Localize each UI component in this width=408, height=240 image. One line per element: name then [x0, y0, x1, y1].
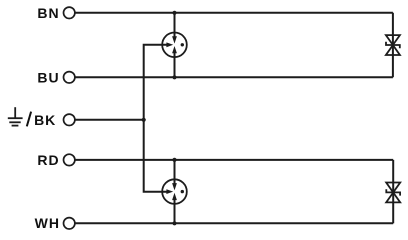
- wire sensor B1 vertical bottom (BU to B1): [174, 52, 176, 78]
- wire sensor B1 vertical top (BN to B1): [174, 13, 176, 38]
- junction on BK branch: [142, 118, 146, 122]
- wire sensor B2 vertical top (RD to B2): [174, 160, 176, 185]
- sensor B2 top arrowhead: [172, 183, 177, 190]
- wire right vertical bottom (RD to WH): [392, 160, 394, 223]
- sensor B2 bottom arrowhead: [172, 193, 177, 200]
- suppressor diode D2 bottom triangle: [386, 193, 400, 203]
- sensor B1 (circle): [162, 33, 187, 58]
- suppressor diode D1 top triangle: [386, 35, 400, 45]
- suppressor diode D2 zener bar: [386, 189, 400, 195]
- slash separator: [27, 112, 31, 127]
- junction on BN at sensor B1: [172, 11, 176, 15]
- terminal circle RD: [63, 154, 74, 165]
- wire BK horizontal: [75, 119, 144, 121]
- terminal circle BN: [63, 7, 74, 18]
- svg-text:WH: WH: [35, 215, 60, 231]
- wire left branch (B1 left arm, vertical, B2 left arm): [144, 45, 167, 192]
- wire WH horizontal: [75, 222, 393, 224]
- sensor B2 (circle): [162, 179, 187, 204]
- sensor B2 dot: [181, 190, 184, 193]
- junction on WH at sensor B2: [172, 221, 176, 225]
- sensor B1 left arrowhead: [166, 42, 173, 47]
- svg-text:BN: BN: [37, 5, 59, 21]
- wire RD horizontal: [75, 159, 393, 161]
- sensor B1 dot: [181, 43, 184, 46]
- terminal circle BU: [63, 72, 74, 83]
- sensor B1 bottom arrowhead: [172, 46, 177, 53]
- junction on RD at sensor B2: [172, 158, 176, 162]
- svg-text:BK: BK: [34, 112, 56, 128]
- svg-text:RD: RD: [37, 152, 59, 168]
- wire BU horizontal: [75, 76, 393, 78]
- wire right vertical top (BN to BU): [392, 13, 394, 78]
- suppressor diode D2 top triangle: [386, 183, 400, 193]
- sensor B1 top arrowhead: [172, 36, 177, 43]
- ground symbol: [8, 107, 23, 125]
- sensor B2 left arrowhead: [166, 189, 173, 194]
- suppressor diode D1 bottom triangle: [386, 45, 400, 55]
- terminal circle WH: [63, 218, 74, 229]
- svg-text:BU: BU: [37, 69, 59, 85]
- terminal circle BK: [63, 114, 74, 125]
- wire BN horizontal: [75, 12, 393, 14]
- wire sensor B2 vertical bottom (WH to B2): [174, 198, 176, 223]
- suppressor diode D1 zener bar: [386, 42, 400, 48]
- junction on BU at sensor B1: [172, 75, 176, 79]
